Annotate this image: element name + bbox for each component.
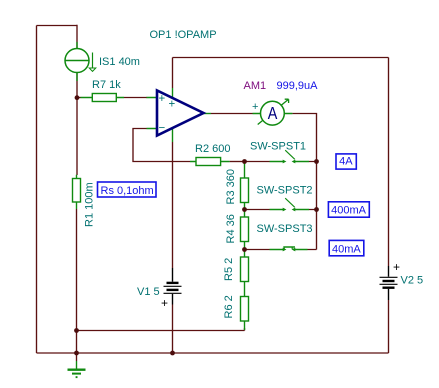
resistor R4 [241, 212, 249, 250]
svg-text:999,9uA: 999,9uA [277, 80, 319, 92]
wire feedback minus input [133, 129, 190, 162]
battery V2 [380, 260, 401, 300]
wire left border [36, 26, 38, 354]
wire IS1 top lead [76, 25, 78, 49]
svg-text:−: − [159, 123, 166, 135]
node R3/R4/SPST2 junction [242, 207, 247, 212]
svg-text:4A: 4A [339, 156, 353, 168]
wire node B to ground node [76, 331, 78, 354]
svg-text:V2 5: V2 5 [401, 275, 424, 287]
wire V1 bottom to rail [172, 305, 174, 354]
resistor R6 [241, 282, 249, 331]
svg-text:R1 100m: R1 100m [84, 182, 96, 227]
wire right border [388, 58, 390, 267]
svg-text:AM1: AM1 [244, 80, 267, 92]
svg-text:Rs 0,1ohm: Rs 0,1ohm [101, 185, 154, 197]
wire op-amp bottom supply to V1 [172, 142, 174, 268]
wire switch column row2 to row3 [316, 210, 318, 250]
svg-text:OP1 !OPAMP: OP1 !OPAMP [150, 29, 217, 41]
wire SPST3 leads [247, 249, 317, 251]
svg-text:IS1 40m: IS1 40m [99, 56, 140, 68]
svg-text:SW-SPST3: SW-SPST3 [257, 223, 313, 235]
svg-text:40mA: 40mA [332, 243, 361, 255]
wire R2 to node C [230, 161, 245, 163]
label Rs 0,1ohm [98, 182, 157, 197]
wire top-left [37, 25, 78, 27]
node B junction [74, 328, 79, 333]
op-amp U1 OP1 [147, 88, 212, 142]
wire IS1 bottom to node A [76, 72, 78, 97]
svg-text:A: A [268, 103, 278, 123]
ammeter AM1 [252, 99, 292, 125]
resistor R2 [190, 158, 230, 166]
node V1 bottom junction [170, 351, 175, 356]
wire bottom rail [37, 352, 389, 354]
wire SPST2 leads [247, 209, 317, 211]
svg-text:R7 1k: R7 1k [92, 79, 121, 91]
switch SW-SPST2 [270, 198, 310, 211]
wire node A to R7 [77, 97, 81, 99]
svg-text:R5 2: R5 2 [223, 258, 235, 281]
label 400mA [328, 202, 369, 217]
svg-text:SW-SPST2: SW-SPST2 [257, 185, 313, 197]
svg-text:R3 360: R3 360 [225, 169, 237, 204]
svg-text:+: + [393, 260, 400, 274]
current source IS1 [65, 42, 96, 81]
node SPST1 right junction [314, 159, 319, 164]
svg-text:SW-SPST1: SW-SPST1 [250, 141, 306, 153]
svg-text:R4 36: R4 36 [225, 214, 237, 243]
svg-text:R2 600: R2 600 [195, 143, 230, 155]
label 4A [336, 154, 356, 169]
svg-text:V1 5: V1 5 [137, 286, 160, 298]
svg-text:400mA: 400mA [331, 205, 367, 217]
wire AM1 to switch column [292, 114, 316, 162]
wire SPST1 leads [247, 161, 317, 163]
svg-text:R6 2: R6 2 [223, 295, 235, 318]
node A junction [75, 95, 80, 100]
node ground junction [74, 351, 79, 356]
svg-text:+: + [252, 101, 258, 113]
battery V1 [161, 268, 182, 310]
svg-text:+: + [169, 99, 176, 111]
ground [68, 353, 86, 378]
resistor R7 [81, 94, 125, 102]
wire V2 bottom to rail [388, 300, 390, 353]
resistor R3 [241, 163, 249, 210]
wire top rail [173, 57, 389, 59]
switch SW-SPST1 [270, 150, 310, 163]
wire node A to R1 [76, 98, 78, 175]
switch SW-SPST3 closed [270, 247, 308, 251]
resistor R1 [73, 175, 81, 209]
node R4/R5/SPST3 junction [242, 247, 247, 252]
node C junction R2/R3/SPST1 [242, 159, 247, 164]
node SPST2 right junction [314, 207, 319, 212]
wire node B to R6 bottom [77, 328, 245, 331]
resistor R5 [241, 252, 249, 282]
wire switch column row1 to row2 [316, 162, 318, 210]
svg-text:+: + [159, 93, 166, 105]
wire op-amp top supply [172, 58, 174, 89]
wire op-amp output to AM1 [211, 113, 253, 115]
label 40mA [329, 240, 364, 255]
wire R1 bottom to node B [76, 209, 78, 331]
wire R7 to op-amp plus input [124, 97, 147, 99]
svg-text:+: + [161, 296, 168, 310]
